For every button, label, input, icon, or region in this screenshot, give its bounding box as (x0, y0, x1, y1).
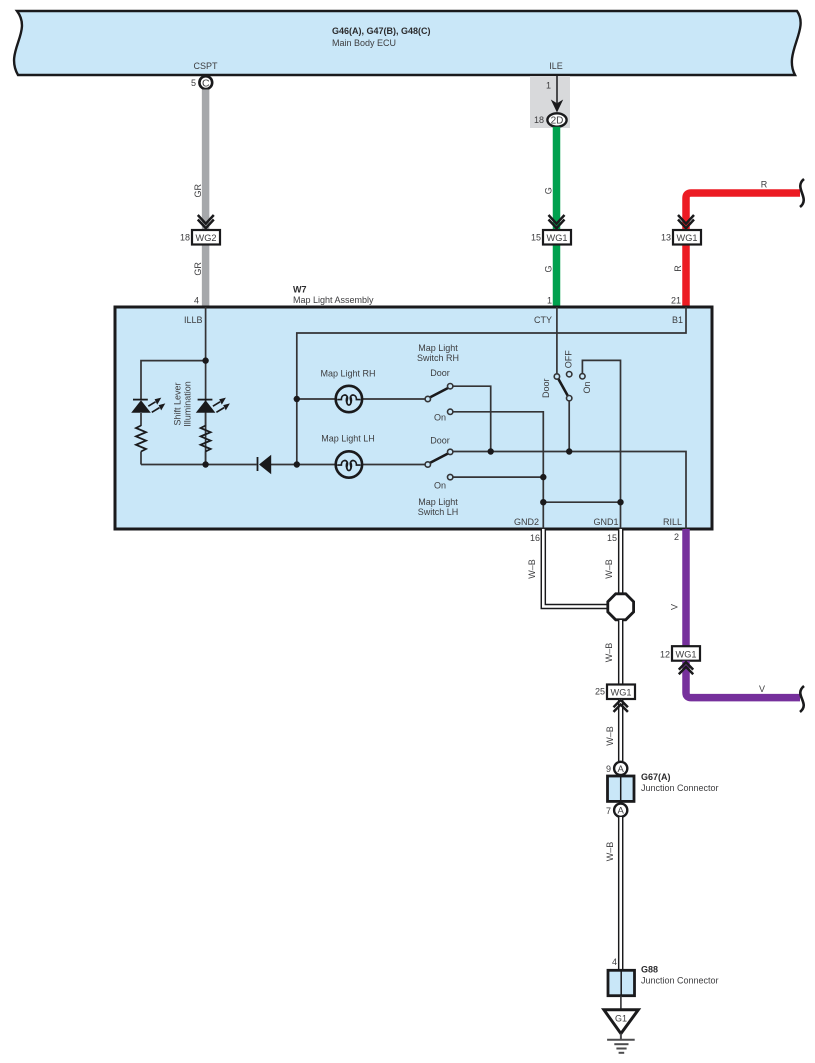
diode D3 (258, 455, 272, 474)
chevron splice arrow on G wire (549, 215, 565, 228)
svg-text:2: 2 (674, 532, 679, 542)
svg-text:ILLB: ILLB (184, 315, 203, 325)
lamp Map Light LH (321, 434, 375, 478)
ground point G1 triangle (604, 1010, 638, 1034)
ECU banner G46(A),G47(B),G48(C) Main Body ECU (14, 11, 801, 75)
svg-text:G: G (544, 187, 554, 194)
svg-text:21: 21 (671, 296, 681, 306)
svg-text:W–B: W–B (605, 842, 615, 862)
wire LED1 to resistor (140, 413, 142, 426)
svg-text:CSPT: CSPT (193, 61, 218, 71)
lamp Map Light RH (320, 369, 375, 413)
svg-text:RILL: RILL (663, 517, 682, 527)
svg-text:GR: GR (193, 262, 203, 276)
svg-text:GR: GR (193, 183, 203, 197)
svg-text:W7: W7 (293, 285, 307, 295)
svg-text:B1: B1 (672, 315, 683, 325)
wire B1 feed (297, 307, 686, 465)
internal wiring (141, 307, 686, 529)
svg-text:On: On (434, 481, 446, 491)
svg-text:G67(A): G67(A) (641, 772, 671, 782)
junction connector G67(A) (608, 772, 719, 801)
connector 18 WG2 (180, 230, 220, 245)
svg-text:4: 4 (612, 957, 617, 967)
wire W-B splice to 25 WG1 (618, 620, 624, 684)
svg-text:9: 9 (606, 764, 611, 774)
svg-text:A: A (618, 806, 625, 817)
svg-text:Map Light LH: Map Light LH (321, 434, 375, 444)
svg-text:C: C (202, 77, 210, 89)
svg-text:On: On (582, 381, 592, 393)
ground symbol (607, 1034, 635, 1053)
svg-text:WG1: WG1 (611, 688, 632, 698)
LED D1 shift lever illumination left (131, 398, 165, 413)
wire LED bottom rail (140, 452, 142, 465)
connector 13 WG1 (661, 230, 701, 245)
wire door RH contact to down link (453, 386, 491, 451)
svg-text:Main Body ECU: Main Body ECU (332, 38, 396, 48)
svg-text:Door: Door (541, 378, 551, 398)
svg-text:18: 18 (180, 233, 190, 243)
LED D2 shift lever illumination right (196, 398, 230, 413)
wire master ON to GND1 (582, 360, 620, 529)
svg-text:WG1: WG1 (547, 233, 568, 243)
wire long rail to RILL (453, 452, 686, 530)
wire GND2-GND1 tie (543, 501, 620, 503)
svg-text:GND1: GND1 (593, 517, 618, 527)
svg-text:W–B: W–B (605, 726, 615, 746)
wire lamp RH row (297, 398, 336, 400)
pin 7 connector A bottom of G67 (606, 804, 627, 817)
svg-text:W–B: W–B (527, 559, 537, 579)
wire ILLB vertical (205, 307, 207, 465)
wire W-B below 25 WG1 (618, 699, 624, 761)
chevron splice arrow on R wire (678, 215, 694, 228)
svg-text:Map Light: Map Light (418, 343, 458, 353)
switch master Door/OFF/On (541, 350, 592, 401)
svg-text:2D: 2D (551, 116, 564, 127)
connector 25 WG1 (595, 685, 635, 700)
wire on RH contact to GND2 line (453, 412, 544, 529)
component W7 Map Light Assembly box (115, 307, 712, 529)
svg-text:Switch RH: Switch RH (417, 353, 459, 363)
wire W-B from GND1 to splice (618, 529, 624, 595)
wire on LH contact (453, 476, 544, 478)
wire master common down (568, 401, 570, 452)
resistor R2 (201, 426, 211, 452)
chevron splice arrow on GR wire (198, 215, 214, 228)
svg-text:G46(A), G47(B), G48(C): G46(A), G47(B), G48(C) (332, 26, 431, 36)
svg-text:A: A (618, 764, 625, 775)
svg-text:Map Light: Map Light (418, 497, 458, 507)
switch Map Light Switch RH (417, 343, 459, 423)
connector 15 WG1 (531, 230, 571, 245)
wire lamp LH row (297, 464, 336, 466)
svg-text:WG2: WG2 (196, 233, 217, 243)
switch Map Light Switch LH (418, 436, 459, 518)
wire V below 12 WG1 to right edge (686, 661, 800, 698)
svg-text:W–B: W–B (604, 643, 614, 663)
svg-text:Map Light Assembly: Map Light Assembly (293, 295, 374, 305)
svg-text:R: R (673, 265, 683, 272)
svg-text:13: 13 (661, 233, 671, 243)
wire W-B from GND2 to splice (543, 529, 608, 607)
connector 18 (2D) oval (534, 113, 567, 126)
svg-text:GND2: GND2 (514, 517, 539, 527)
junction connector G88 (608, 965, 719, 996)
svg-text:18: 18 (534, 115, 544, 125)
svg-text:On: On (434, 413, 446, 423)
wire break squiggle V (800, 686, 804, 712)
wire GR from CSPT to ILLB (202, 90, 210, 308)
svg-text:Map Light RH: Map Light RH (320, 369, 375, 379)
svg-text:Switch LH: Switch LH (418, 507, 459, 517)
svg-text:Junction Connector: Junction Connector (641, 783, 719, 793)
svg-text:Junction Connector: Junction Connector (641, 976, 719, 986)
ILE pin 1 internal link arrow (546, 76, 563, 113)
resistor R1 (136, 426, 146, 452)
svg-text:15: 15 (607, 533, 617, 543)
svg-text:1: 1 (547, 296, 552, 306)
svg-text:Door: Door (430, 436, 450, 446)
svg-text:16: 16 (530, 533, 540, 543)
svg-text:G: G (544, 265, 554, 272)
svg-text:CTY: CTY (534, 315, 552, 325)
svg-text:1: 1 (546, 81, 551, 91)
svg-text:W–B: W–B (604, 559, 614, 579)
svg-text:25: 25 (595, 687, 605, 697)
chevron splice arrow up below 25 WG1 (614, 700, 628, 712)
wire G from ILE to CTY (553, 127, 561, 307)
svg-text:Illumination: Illumination (183, 381, 193, 427)
svg-text:WG1: WG1 (677, 233, 698, 243)
svg-text:R: R (761, 180, 768, 190)
svg-text:OFF: OFF (564, 350, 574, 368)
pin 9 connector A top of G67 (606, 762, 627, 775)
svg-text:7: 7 (606, 806, 611, 816)
svg-text:12: 12 (660, 650, 670, 660)
wire LED branch top (141, 361, 206, 400)
svg-text:5: 5 (191, 78, 196, 88)
gray shade behind ILE internal link (530, 76, 570, 128)
chevron splice arrow up below 12 WG1 (679, 662, 693, 674)
svg-text:V: V (759, 684, 765, 694)
svg-text:WG1: WG1 (676, 650, 697, 660)
wire G88 to ground (620, 996, 622, 1010)
svg-text:G1: G1 (615, 1013, 627, 1023)
svg-text:G88: G88 (641, 965, 658, 975)
svg-text:15: 15 (531, 233, 541, 243)
wire break squiggle R (800, 179, 804, 207)
junction dots (202, 357, 623, 505)
pin 5 connector C of CSPT (191, 76, 212, 89)
wire CTY to master switch (556, 307, 558, 374)
svg-text:Door: Door (430, 368, 450, 378)
wire R from right edge to B1 (686, 193, 800, 307)
wire V from RILL down (682, 529, 690, 646)
svg-text:ILE: ILE (549, 61, 563, 71)
connector 12 WG1 (660, 646, 700, 661)
wire LED2 to resistor (205, 413, 207, 426)
svg-text:Shift Lever: Shift Lever (173, 382, 183, 425)
wire W-B from G67 to G88 (618, 817, 624, 970)
svg-text:4: 4 (194, 296, 199, 306)
splice octagon (608, 594, 634, 620)
svg-text:V: V (670, 604, 680, 610)
